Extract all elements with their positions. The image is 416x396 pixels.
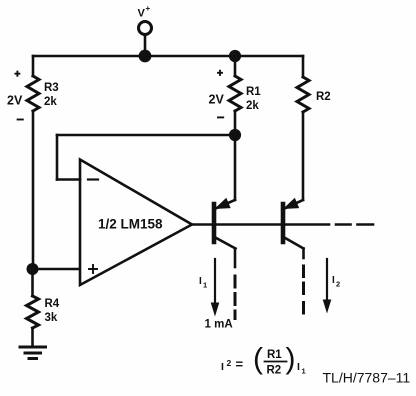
svg-text:I: I <box>221 361 224 373</box>
svg-text:1 mA: 1 mA <box>205 319 233 331</box>
resistor R4 <box>27 296 39 328</box>
svg-text:2: 2 <box>227 358 232 368</box>
svg-text:+: + <box>146 4 151 13</box>
wire R1 top <box>234 56 237 76</box>
resistor R1 <box>229 76 241 111</box>
wire top supply rail <box>33 55 303 58</box>
transistor Q1 <box>214 199 236 319</box>
svg-text:(: ( <box>253 343 263 376</box>
wire R4 to ground <box>31 328 34 346</box>
svg-text:R4: R4 <box>45 298 60 310</box>
svg-text:2k: 2k <box>44 96 57 108</box>
svg-text:V: V <box>138 8 146 20</box>
wire dashed base line continuation <box>336 223 373 226</box>
svg-text:1: 1 <box>203 281 207 290</box>
svg-text:R1: R1 <box>267 349 282 361</box>
svg-text:I: I <box>199 276 202 287</box>
svg-text:I: I <box>332 275 335 286</box>
wire R1 bottom to node <box>234 111 237 135</box>
equation fraction bar <box>265 361 287 363</box>
label R1 2k <box>246 86 261 112</box>
svg-text:2: 2 <box>336 280 340 289</box>
wire feedback vertical <box>56 135 59 180</box>
svg-text:1: 1 <box>302 367 306 376</box>
label V+ <box>138 4 151 20</box>
equation I2 = (R1/R2) I1 <box>221 343 306 377</box>
resistor R2 <box>297 77 309 112</box>
svg-text:I: I <box>297 361 300 373</box>
svg-text:TL/H/7787–11: TL/H/7787–11 <box>323 370 411 386</box>
wire inverting input stub <box>57 178 80 181</box>
junction dot R1 top <box>229 50 241 62</box>
wire left rail R3 to node <box>32 111 35 269</box>
wire node to Q1 emitter <box>234 135 237 200</box>
label R4 3k <box>45 298 60 324</box>
label 2V with polarity (left) <box>15 72 22 120</box>
wire op-amp output to transistor bases <box>192 223 329 226</box>
wire R2 bottom to Q2 emitter <box>302 112 305 200</box>
label I2 <box>332 275 340 289</box>
V+ terminal <box>139 22 152 57</box>
current arrow I1 <box>211 259 220 317</box>
svg-text:R2: R2 <box>267 365 282 377</box>
wire R3 top <box>32 56 35 76</box>
junction dot supply/V+ <box>139 50 152 63</box>
label 2V with polarity (right) <box>218 71 223 118</box>
svg-text:=: = <box>236 357 244 372</box>
label I1 <box>199 276 207 290</box>
ground <box>20 347 46 359</box>
transistor Q2 <box>283 199 304 313</box>
svg-text:2V: 2V <box>209 92 225 106</box>
svg-text:1/2 LM158: 1/2 LM158 <box>98 217 163 232</box>
svg-text:): ) <box>286 343 296 376</box>
wire node to R4 <box>31 269 34 296</box>
svg-text:R3: R3 <box>44 82 59 94</box>
resistor R3 <box>27 76 39 111</box>
label R3 2k <box>44 82 59 108</box>
op-amp U1 1/2 LM158 <box>80 160 192 286</box>
svg-text:R2: R2 <box>316 91 331 103</box>
svg-text:3k: 3k <box>45 312 58 324</box>
svg-text:2V: 2V <box>7 94 23 108</box>
junction dot R1/feedback/Q1 emitter <box>229 129 241 141</box>
node non-inverting junction <box>27 263 39 275</box>
wire non-inverting input stub <box>33 268 81 271</box>
svg-text:2k: 2k <box>246 100 259 112</box>
svg-text:R1: R1 <box>246 86 261 98</box>
wire feedback horizontal <box>57 134 235 137</box>
current arrow I2 <box>323 259 332 314</box>
wire R2 top <box>302 56 305 77</box>
